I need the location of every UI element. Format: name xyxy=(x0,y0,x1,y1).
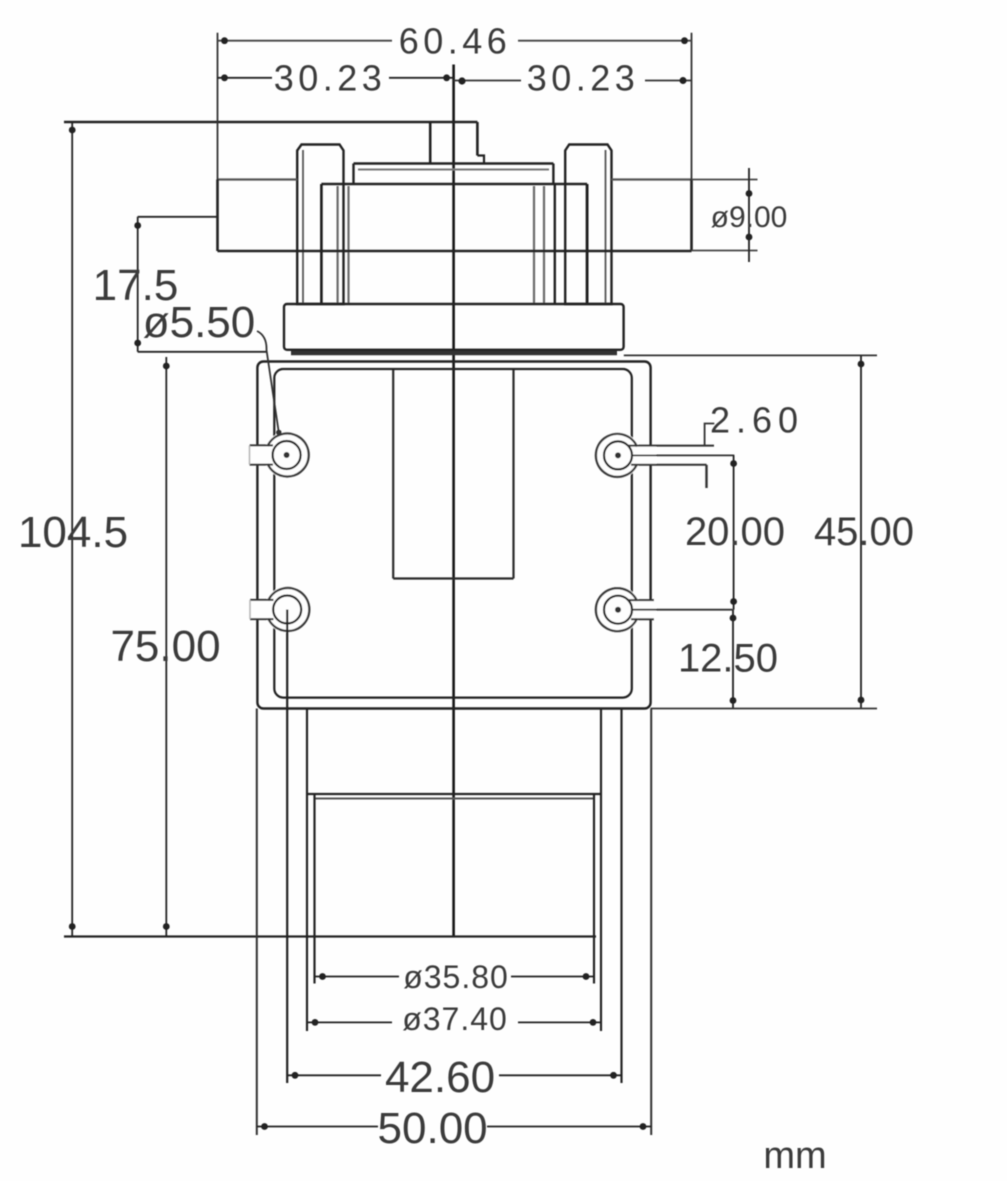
dimension 60.46 xyxy=(218,21,692,180)
dimension diameter 9.00 xyxy=(692,168,788,262)
gasket xyxy=(291,351,617,356)
units label mm xyxy=(763,1135,826,1177)
dimension 30.23 right xyxy=(454,58,692,99)
svg-text:60.46: 60.46 xyxy=(399,21,512,62)
shaft nub xyxy=(430,122,484,163)
svg-text:12.50: 12.50 xyxy=(678,637,778,681)
svg-text:ø9.00: ø9.00 xyxy=(711,201,788,234)
dimension 17.5 xyxy=(93,217,266,352)
motor housing xyxy=(307,709,622,1084)
left bolt post xyxy=(297,145,343,305)
label diameter 5.50 with leader xyxy=(143,298,282,435)
body inner slot xyxy=(393,370,513,579)
dimension 50.00 xyxy=(257,1104,651,1153)
tube bottom line across xyxy=(218,250,692,252)
svg-text:20.00: 20.00 xyxy=(685,510,785,554)
slot lines bottom-right with center extension xyxy=(628,600,733,619)
mounting hole top-left xyxy=(250,433,309,476)
dimension 45.00 xyxy=(624,355,914,708)
body side extension lines to 50.00 xyxy=(257,709,651,1136)
svg-text:75.00: 75.00 xyxy=(110,622,220,671)
svg-text:2.60: 2.60 xyxy=(710,400,804,441)
svg-text:mm: mm xyxy=(763,1135,826,1177)
svg-text:ø37.40: ø37.40 xyxy=(402,1001,508,1037)
dimension 30.23 left xyxy=(218,58,454,99)
top cover plate xyxy=(354,164,554,185)
dimension 20.00 xyxy=(685,455,785,609)
right bolt post xyxy=(565,145,611,305)
motor inner can xyxy=(315,794,595,984)
svg-text:45.00: 45.00 xyxy=(814,510,914,554)
svg-text:30.23: 30.23 xyxy=(274,58,387,99)
mounting hole bottom-right xyxy=(596,588,637,631)
hole white patches xyxy=(248,432,656,633)
dimension 12.50 xyxy=(651,610,877,709)
dimension 75.00 xyxy=(110,357,220,937)
mounting hole top-right xyxy=(596,434,637,477)
svg-text:50.00: 50.00 xyxy=(378,1104,488,1153)
svg-text:104.5: 104.5 xyxy=(18,508,128,557)
flange xyxy=(284,304,624,350)
svg-text:ø35.80: ø35.80 xyxy=(403,959,509,995)
pump body outer xyxy=(257,362,650,709)
label 2.60 with leader xyxy=(705,400,804,489)
dimension 42.60 xyxy=(287,1053,621,1102)
svg-text:30.23: 30.23 xyxy=(527,58,640,99)
slot lines top-right with 2.60 extensions xyxy=(628,446,734,465)
pump body inner xyxy=(274,369,632,698)
mounting hole bottom-left xyxy=(250,588,309,631)
shaft nub top line with 104.5 extension xyxy=(64,121,477,124)
pump chamber xyxy=(321,184,587,304)
left inlet tube xyxy=(218,180,298,252)
dimension diameter 37.40 xyxy=(307,1001,601,1037)
motor bottom line with left dims extension xyxy=(64,935,596,937)
svg-text:42.60: 42.60 xyxy=(385,1053,495,1102)
center line xyxy=(452,65,455,936)
svg-text:ø5.50: ø5.50 xyxy=(143,298,256,347)
right outlet tube xyxy=(612,180,692,252)
dimension diameter 35.80 xyxy=(315,959,595,995)
dimension 104.5 xyxy=(18,122,128,937)
bottom-left hole center extension down to 42.60 xyxy=(286,610,288,1084)
